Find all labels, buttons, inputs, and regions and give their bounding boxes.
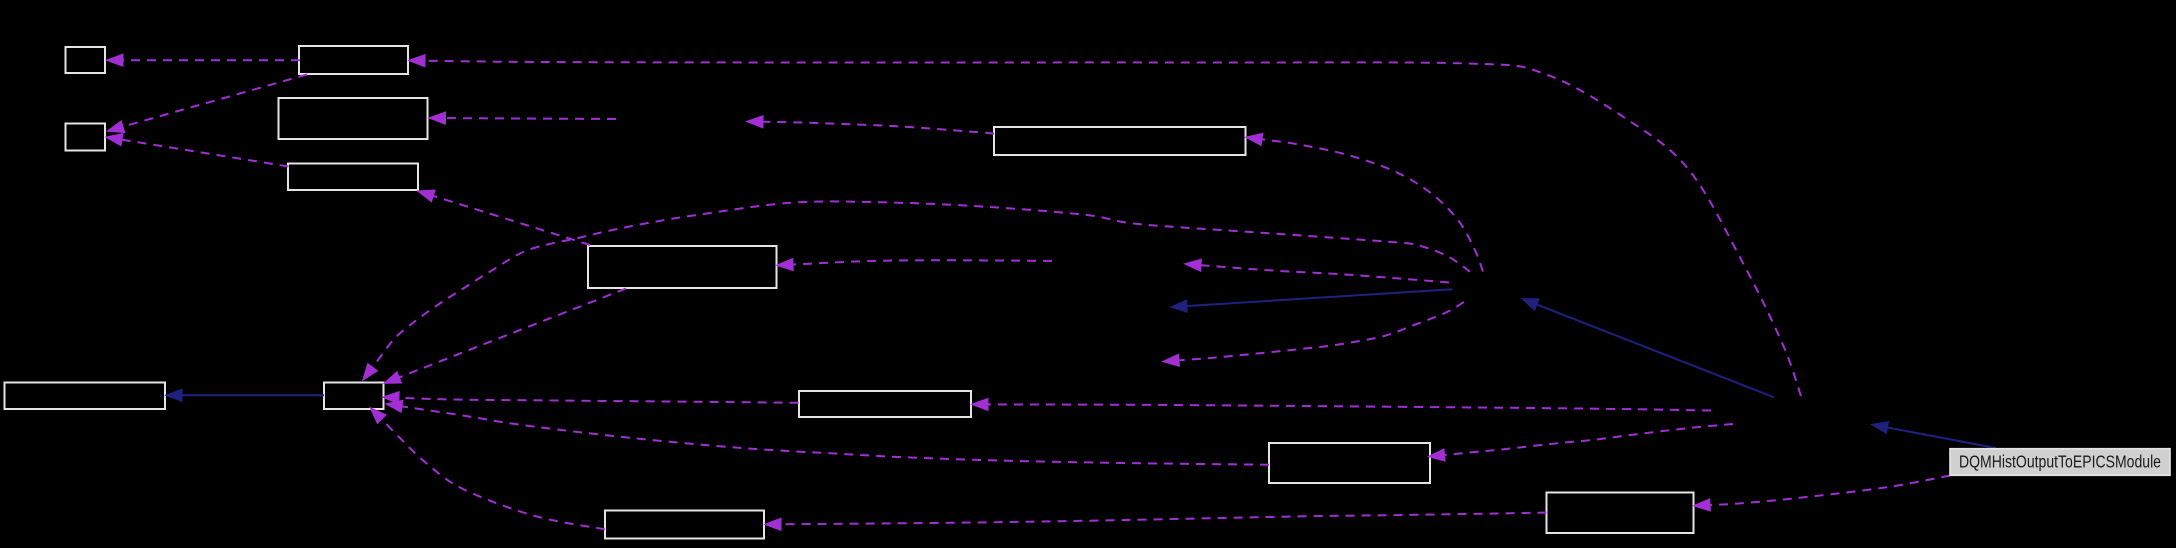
edge hiddenA->K [1430, 424, 1733, 460]
node H (small hub-left) [324, 383, 384, 410]
blue edge hub->hidden left [1172, 289, 1453, 311]
edge B->C [109, 75, 308, 133]
edge hub->H big arc [364, 201, 1470, 379]
edge hiddenA->J [973, 399, 1711, 411]
blue edge H->I [167, 390, 324, 401]
edge L->M [766, 513, 1547, 530]
node M [605, 511, 764, 539]
edge hub->F right segment [1186, 260, 1449, 283]
edge F->E [419, 191, 590, 245]
edge E->C [107, 134, 288, 166]
node A (top-left small) [66, 47, 106, 73]
edge (label)->D [431, 113, 617, 124]
edge hub->hidden node right-mid [1164, 302, 1464, 366]
node B (top) [299, 46, 408, 74]
node G (long) [994, 127, 1246, 155]
svg-text:DQMHistOutputToEPICSModule: DQMHistOutputToEPICSModule [1959, 452, 2161, 472]
node E [288, 164, 418, 191]
edge hub->F left segment into F [778, 259, 1052, 270]
edge grey->L [1695, 476, 1950, 511]
edge M->H [371, 409, 605, 530]
main node DQMHistOutputToEPICSModule (grey) [1950, 449, 2170, 476]
edge B->A [108, 55, 300, 66]
node L (two-line) [1547, 493, 1694, 534]
node D (two-line) [279, 98, 428, 139]
edge K->H [387, 401, 1269, 465]
edge (hidden DQMHistAnalysisModule)->B long top curve [410, 55, 1801, 396]
node J [799, 391, 971, 417]
edge J->H [384, 392, 799, 403]
edge F->H [385, 289, 626, 383]
blue edge hiddenA->hub [1523, 299, 1774, 397]
node C (left small, 2nd row) [66, 124, 106, 151]
edge hub->G [1247, 134, 1483, 272]
node I (wide, bottom-left) [5, 383, 166, 410]
edge G->(label) upper [748, 116, 994, 133]
blue edge grey->hiddenA [1873, 422, 1996, 448]
node F (two-line, centre) [588, 246, 777, 288]
node K (two-line) [1269, 443, 1430, 483]
